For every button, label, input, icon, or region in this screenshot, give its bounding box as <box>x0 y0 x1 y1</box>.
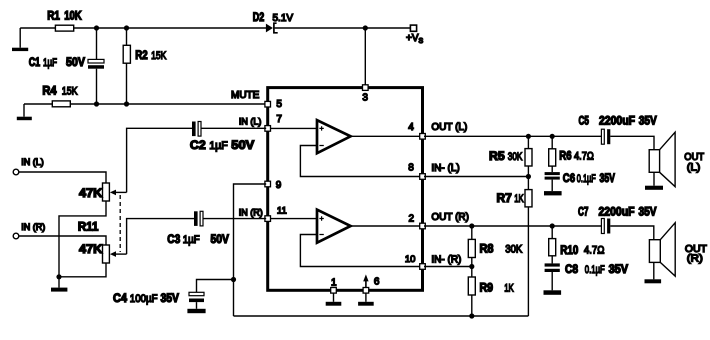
svg-text:6: 6 <box>374 277 380 288</box>
svg-text:C6: C6 <box>563 171 575 185</box>
junction node IN-(L)/R5/R7 <box>526 174 531 179</box>
svg-text:C3: C3 <box>167 232 180 246</box>
svg-text:50V: 50V <box>66 55 85 69</box>
svg-text:5.1V: 5.1V <box>273 13 294 24</box>
svg-text:4.7Ω: 4.7Ω <box>574 151 594 163</box>
junction node C4 <box>231 277 236 282</box>
svg-text:10K: 10K <box>64 9 82 23</box>
junction node R1/R2 <box>124 25 129 30</box>
svg-text:2200uF: 2200uF <box>599 114 635 128</box>
wire top rail (R1 line to D2) <box>20 27 266 29</box>
wire D2 to +Vs <box>275 27 411 29</box>
svg-text:35V: 35V <box>161 291 180 305</box>
terminal IN (R) <box>13 222 45 239</box>
junction node R2/R4 <box>124 101 129 106</box>
svg-text:R4: R4 <box>42 83 56 97</box>
svg-text:35V: 35V <box>600 171 616 185</box>
junction node C1/R4 <box>94 101 99 106</box>
wire pin 11 to op-amp A2 + input <box>269 218 317 220</box>
svg-text:1µF: 1µF <box>183 234 200 246</box>
wire C5 to speaker L <box>610 136 654 149</box>
capacitor C7 <box>578 205 657 234</box>
svg-text:IN (L): IN (L) <box>239 117 262 127</box>
ground (R4 left) <box>17 104 32 120</box>
resistor R2 <box>123 28 167 104</box>
potentiometer R11a 47K <box>79 183 127 201</box>
wire IN- (L) pin 8 to R5/R7 <box>424 176 528 178</box>
svg-text:0.1µF: 0.1µF <box>577 173 596 185</box>
junction node IN-(R)/R8/R9 <box>469 264 474 269</box>
junction node OUT(R)/R8 <box>469 223 474 228</box>
capacitor C1 <box>29 28 104 104</box>
svg-text:47K: 47K <box>79 242 103 256</box>
wire IN (L) to pot R11a <box>19 172 106 183</box>
svg-text:OUT: OUT <box>684 152 704 163</box>
wire pin 3 supply <box>364 28 366 86</box>
svg-text:7: 7 <box>276 114 282 125</box>
svg-text:OUT (R): OUT (R) <box>431 212 469 223</box>
resistor R10 <box>549 226 605 263</box>
ground (speaker L) <box>645 186 663 190</box>
capacitor C5 <box>579 114 657 145</box>
op-amp A1 <box>317 120 351 153</box>
capacitor C3 <box>167 211 266 246</box>
potentiometer R11b 47K <box>79 242 127 263</box>
ground (R1 left) <box>12 28 28 51</box>
svg-text:35V: 35V <box>639 205 657 219</box>
op-amp A2 <box>317 210 351 243</box>
wire pin 7 to op-amp A1 + input <box>269 127 317 129</box>
ground (input pots) <box>51 277 67 292</box>
pin 8 <box>408 163 425 180</box>
svg-text:2200uF: 2200uF <box>599 205 635 219</box>
svg-text:OUT (L): OUT (L) <box>431 122 467 133</box>
svg-text:IN- (L): IN- (L) <box>431 163 459 174</box>
wire wiper R11b to C3 <box>127 219 194 255</box>
zener diode D2 <box>253 10 294 33</box>
junction node OUT(L)/R6 <box>550 134 555 139</box>
junction node R1/C1 <box>94 25 99 30</box>
svg-text:IN (R): IN (R) <box>239 207 263 217</box>
svg-text:R11: R11 <box>78 219 99 233</box>
svg-text:C4: C4 <box>113 291 127 305</box>
terminal +Vs <box>406 25 424 45</box>
svg-text:50V: 50V <box>211 232 230 246</box>
svg-text:1K: 1K <box>514 193 524 205</box>
wire R4/MUTE line to pin 5 <box>24 103 266 105</box>
wire OUT (R) pin 2 to C7 <box>424 225 601 227</box>
speaker OUT (R) <box>649 223 707 280</box>
svg-text:30K: 30K <box>508 151 523 163</box>
wire SVR bottom rail <box>234 315 529 317</box>
capacitor C6 <box>545 171 615 191</box>
svg-text:C1: C1 <box>29 55 41 69</box>
wire pot R11b bottom to ground bus <box>59 263 106 277</box>
ground (C4) <box>187 309 205 313</box>
svg-text:IN (R): IN (R) <box>21 222 45 232</box>
svg-text:47K: 47K <box>79 186 103 200</box>
ground (speaker R) <box>645 279 662 283</box>
pin 5 <box>265 99 283 110</box>
pin 9 <box>265 180 282 191</box>
svg-text:1: 1 <box>331 278 337 289</box>
svg-text:3: 3 <box>362 92 368 103</box>
svg-text:D2: D2 <box>253 10 265 24</box>
resistor R8 <box>468 239 523 257</box>
svg-text:R2: R2 <box>135 48 148 62</box>
resistor R1 <box>47 9 82 32</box>
svg-text:R7: R7 <box>497 191 513 205</box>
junction node OUT(L)/R5 <box>526 134 531 139</box>
svg-text:C5: C5 <box>579 114 590 128</box>
svg-text:15K: 15K <box>62 85 78 97</box>
svg-text:8: 8 <box>408 163 414 174</box>
svg-text:MUTE: MUTE <box>231 90 260 101</box>
resistor R7 <box>497 190 533 207</box>
capacitor C2 <box>190 122 266 152</box>
svg-text:R9: R9 <box>480 280 494 294</box>
svg-text:R6: R6 <box>559 149 571 163</box>
junction node pot ground <box>56 274 61 279</box>
svg-text:4: 4 <box>408 122 414 133</box>
wire IN- (R) pin 10 to R8/R9 <box>424 266 472 268</box>
junction node rail/R9 <box>469 313 474 318</box>
svg-text:9: 9 <box>276 180 282 191</box>
capacitor C8 <box>545 262 629 290</box>
wire op-amp A2 output to pin 2 <box>351 225 421 227</box>
svg-text:R1: R1 <box>47 9 60 23</box>
ground (pin 1) <box>326 293 342 306</box>
svg-text:IN- (R): IN- (R) <box>431 254 461 265</box>
svg-text:1µF: 1µF <box>43 57 57 69</box>
ground (C8) <box>544 290 562 295</box>
svg-text:5: 5 <box>276 99 282 110</box>
pin 4 <box>408 122 425 139</box>
IC U1 body <box>268 88 423 291</box>
svg-text:(R): (R) <box>687 254 703 265</box>
resistor R9 <box>468 277 514 295</box>
wire C4 branch <box>197 280 234 293</box>
wire pin 9 to SVR node <box>234 184 267 316</box>
svg-text:10: 10 <box>405 254 416 265</box>
capacitor C4 <box>113 291 204 309</box>
svg-text:100µF: 100µF <box>130 293 158 305</box>
svg-text:35V: 35V <box>609 262 629 276</box>
speaker OUT (L) <box>649 132 704 187</box>
gang link R11 (dashed) <box>119 195 121 252</box>
wire wiper R11a to C2 <box>127 128 192 192</box>
svg-text:C8: C8 <box>565 262 578 276</box>
wire op-amp A1 - input feedback to pin 8 <box>300 146 421 177</box>
wire op-amp A2 - input feedback to pin 10 <box>300 235 421 267</box>
thermal arrow at pin 6 <box>363 274 368 288</box>
ground (pin 6) <box>358 293 374 306</box>
pin 7 <box>265 114 283 131</box>
svg-text:4.7Ω: 4.7Ω <box>584 244 605 256</box>
svg-text:1µF: 1µF <box>209 140 228 152</box>
pin 10 <box>405 254 425 269</box>
pin 6 <box>363 277 380 293</box>
ground (C6) <box>544 191 562 195</box>
wire OUT (L) pin 4 to C5 <box>424 135 601 137</box>
svg-text:30K: 30K <box>505 244 523 256</box>
junction node +Vs/pin3 <box>363 25 368 30</box>
svg-text:11: 11 <box>277 206 287 217</box>
svg-text:C2: C2 <box>190 138 206 152</box>
wire R5/R7 column <box>527 136 529 316</box>
svg-text:35V: 35V <box>639 114 657 128</box>
svg-text:C7: C7 <box>578 205 589 219</box>
svg-text:R5: R5 <box>489 149 505 163</box>
junction node OUT(R)/R10 <box>550 223 555 228</box>
pin 11 <box>265 206 287 222</box>
wire op-amp A1 output to pin 4 <box>351 135 421 137</box>
svg-text:IN (L): IN (L) <box>21 157 44 167</box>
svg-text:2: 2 <box>409 213 415 224</box>
pin 1 <box>331 278 337 294</box>
terminal IN (L) <box>13 157 44 175</box>
wire IN (R) to pot R11b <box>19 236 106 245</box>
wire C7 to speaker R <box>610 226 654 240</box>
pin 3 <box>362 85 368 104</box>
pin 2 <box>409 213 426 228</box>
svg-text:1K: 1K <box>504 282 514 294</box>
svg-text:0.1µF: 0.1µF <box>585 264 605 276</box>
svg-text:50V: 50V <box>231 138 254 152</box>
wire R8/R9 column <box>471 226 473 316</box>
svg-text:R10: R10 <box>560 243 578 257</box>
resistor R5 <box>489 149 532 166</box>
svg-text:(L): (L) <box>687 162 701 173</box>
resistor R6 <box>549 136 594 172</box>
wire pot R11a bottom to ground bus <box>59 201 106 277</box>
resistor R4 <box>42 83 78 107</box>
svg-text:15K: 15K <box>151 50 167 62</box>
svg-text:R8: R8 <box>480 242 494 256</box>
